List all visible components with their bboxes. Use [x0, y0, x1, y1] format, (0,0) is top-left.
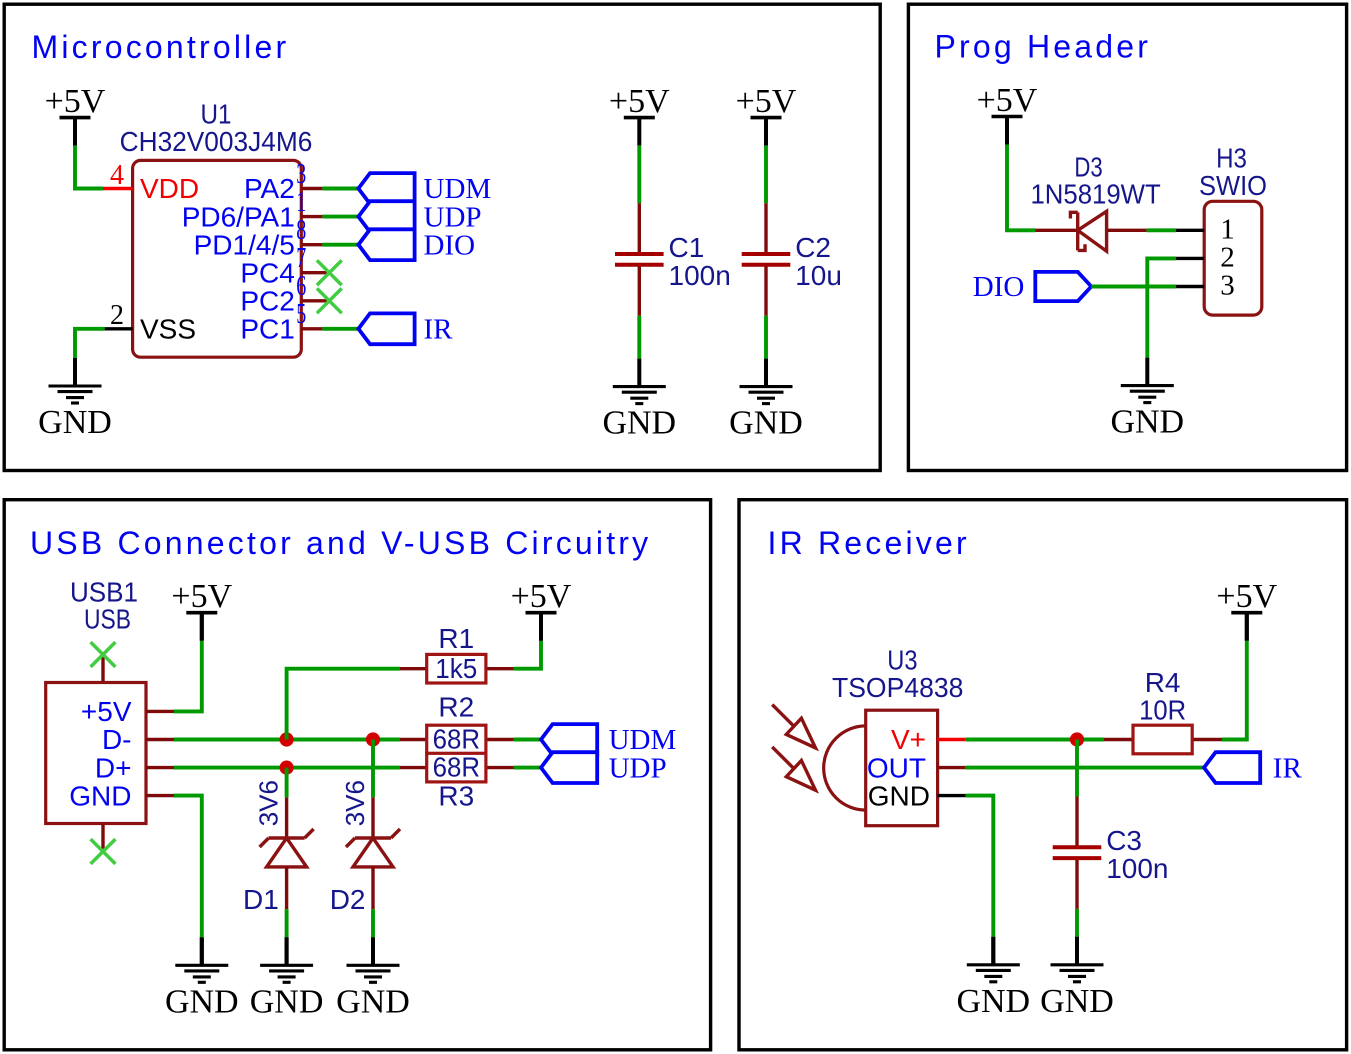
wire GND stick (black)	[285, 937, 289, 965]
label R1 reference	[438, 623, 474, 654]
resistor R4 10R	[1104, 725, 1222, 754]
svg-text:C2: C2	[795, 232, 831, 263]
svg-text:GND: GND	[1110, 404, 1184, 441]
no-connect X U1 PC4	[317, 260, 342, 285]
U1 pin 2 VSS	[105, 300, 196, 344]
title: USB Connector and V-USB Circuitry	[30, 525, 651, 561]
U1 pin 4 VDD	[103, 160, 199, 204]
wire R1 to D- branch	[287, 669, 400, 740]
wire C2 to GND	[764, 316, 768, 359]
H3 pin 2	[1176, 241, 1235, 273]
global label IR	[358, 313, 453, 345]
wire +5V stick (black)	[200, 613, 204, 641]
svg-text:TSOP4838: TSOP4838	[832, 672, 963, 703]
svg-text:GND: GND	[38, 404, 112, 441]
wire D3 anode to H3 pin 1	[1147, 228, 1176, 232]
svg-text:100n: 100n	[1106, 853, 1168, 884]
wire U1 PA2 to UDM	[322, 187, 358, 191]
svg-text:3: 3	[296, 159, 306, 190]
ground GND at C3	[1040, 937, 1114, 1020]
wire H3 pin 2 to GND	[1147, 258, 1176, 357]
svg-text:100n: 100n	[669, 260, 731, 291]
label C1 reference	[669, 232, 705, 263]
svg-text:GND: GND	[602, 405, 676, 442]
svg-text:+5V: +5V	[736, 83, 797, 120]
junction D- at D2 branch	[366, 732, 380, 746]
global label UDP	[358, 201, 481, 233]
title: Microcontroller	[32, 29, 290, 65]
U1 pin 8 PD1/4/5	[194, 215, 323, 260]
label R4 reference	[1145, 667, 1181, 698]
zener diode D1 3V6	[260, 797, 314, 909]
section frame: IR Receiver	[739, 500, 1347, 1050]
IC U1 CH32V003J4M6 body	[133, 160, 302, 357]
capacitor C3	[1053, 797, 1102, 909]
svg-text:DIO: DIO	[424, 229, 476, 261]
svg-text:7: 7	[296, 243, 306, 274]
USB1 shield pin top	[101, 655, 104, 683]
wire R2 to UDM label	[514, 738, 541, 742]
label U1 value CH32V003J4M6	[120, 126, 313, 157]
svg-text:OUT: OUT	[867, 752, 926, 783]
USB1 pin GND	[69, 780, 174, 811]
global label DIO	[358, 229, 475, 261]
svg-text:6: 6	[296, 271, 306, 302]
svg-text:+5V: +5V	[1216, 578, 1277, 615]
label U3 value TSOP4838	[832, 672, 963, 703]
power +5V at C1	[609, 83, 670, 146]
label D2 value 3V6 (rotated)	[340, 780, 370, 826]
svg-text:VSS: VSS	[140, 314, 196, 345]
svg-text:Microcontroller: Microcontroller	[32, 29, 290, 65]
label R1 value 1k5	[435, 653, 477, 684]
svg-text:C3: C3	[1106, 825, 1142, 856]
label C2 reference	[795, 232, 831, 263]
svg-text:D2: D2	[330, 884, 366, 915]
wire +5V to D3 cathode	[1007, 145, 1036, 231]
ground GND at U3	[956, 937, 1030, 1020]
svg-text:USB Connector and V-USB Circui: USB Connector and V-USB Circuitry	[30, 525, 651, 561]
svg-text:3V6: 3V6	[254, 780, 284, 826]
diode D3 1N5819WT schottky	[1036, 211, 1147, 251]
U1 pin 7 PC4	[240, 243, 329, 288]
label R2 value 68R	[433, 724, 480, 755]
power +5V at USB1	[171, 578, 232, 641]
svg-text:GND: GND	[165, 983, 239, 1020]
U3 pin OUT	[867, 752, 966, 783]
label D3 value 1N5819WT	[1030, 178, 1160, 209]
label USB1 value USB	[84, 603, 131, 634]
USB1 pin D-	[102, 724, 174, 755]
section frame: Prog Header	[908, 4, 1346, 470]
IR receiver U3 body	[824, 710, 938, 826]
no-connect X USB1 shield top	[91, 642, 116, 667]
wire DIO to H3 pin 3	[1091, 285, 1176, 289]
svg-text:U3: U3	[887, 645, 917, 676]
no-connect X USB1 shield bottom	[91, 839, 116, 864]
connector USB1 body	[46, 683, 146, 824]
power +5V at U1 VDD	[45, 83, 106, 146]
power +5V at C2	[736, 83, 797, 146]
svg-text:+5V: +5V	[511, 578, 572, 615]
U1 pin 6 PC2	[240, 271, 329, 316]
svg-text:3: 3	[1220, 270, 1235, 302]
svg-text:GND: GND	[956, 983, 1030, 1020]
wire R4 to +5V	[1222, 641, 1247, 740]
label H3 reference	[1216, 143, 1247, 174]
svg-text:10R: 10R	[1139, 695, 1186, 726]
svg-text:V+: V+	[891, 724, 926, 755]
global label UDP	[541, 752, 667, 784]
svg-text:IR: IR	[424, 314, 454, 346]
svg-text:1k5: 1k5	[435, 653, 477, 684]
wire D1 anode to GND	[285, 909, 289, 937]
capacitor C1	[615, 203, 664, 315]
wire +5V stick (black)	[1245, 613, 1249, 641]
svg-text:SWIO: SWIO	[1199, 170, 1267, 201]
svg-text:GND: GND	[729, 405, 803, 442]
ground GND at C2	[729, 359, 803, 442]
power +5V Prog Header	[977, 82, 1038, 145]
label R3 reference	[438, 781, 474, 812]
wire D2 cathode up	[371, 740, 375, 798]
wire C1 to GND	[637, 316, 641, 359]
U1 pin 1 PD6/PA1	[182, 187, 323, 232]
svg-text:C1: C1	[669, 232, 705, 263]
wire GND stick (black)	[371, 937, 375, 965]
svg-text:GND: GND	[250, 983, 324, 1020]
wire +5V to C1	[637, 146, 641, 204]
wire U1 PD6 to UDP	[322, 215, 358, 219]
capacitor C2	[742, 203, 791, 315]
wire D1 cathode up	[285, 768, 289, 798]
svg-text:1: 1	[296, 187, 306, 218]
svg-text:IR Receiver: IR Receiver	[768, 525, 970, 561]
svg-text:D1: D1	[243, 884, 279, 915]
svg-text:GND: GND	[69, 780, 131, 811]
svg-text:+5V: +5V	[977, 82, 1038, 119]
wire U1 PC1 to IR	[322, 327, 358, 331]
wire C3 to GND	[1075, 909, 1079, 937]
section frame: USB Connector	[4, 500, 710, 1050]
svg-text:H3: H3	[1216, 143, 1247, 174]
wire +5V to U1 VDD	[75, 146, 103, 189]
label C2 value 10u	[795, 260, 842, 291]
global label UDM	[541, 724, 676, 756]
wire U1 PD1 to DIO	[322, 243, 358, 247]
ground GND at C1	[602, 359, 676, 442]
label R4 value 10R	[1139, 695, 1186, 726]
global label UDM	[358, 173, 491, 205]
header H3 SWIO body	[1204, 201, 1262, 315]
wire R3 to UDP label	[514, 766, 541, 770]
label D3 reference	[1074, 151, 1102, 182]
wire +5V to C2	[764, 146, 768, 204]
label USB1 reference	[70, 576, 138, 607]
svg-text:USB: USB	[84, 603, 131, 634]
wire U3 OUT to IR label	[966, 766, 1204, 770]
wire C3 branch down	[1075, 740, 1079, 797]
svg-text:PC1: PC1	[240, 314, 294, 345]
resistor R3 68R	[400, 753, 514, 782]
power +5V at R4	[1216, 578, 1277, 641]
label D2 reference	[330, 884, 366, 915]
ground GND at D2	[336, 937, 410, 1020]
label R2 reference	[438, 692, 474, 723]
ground GND Prog Header	[1110, 358, 1184, 441]
svg-text:U1: U1	[201, 98, 232, 129]
label C1 value 100n	[669, 260, 731, 291]
U1 pin 5 PC1	[240, 299, 322, 344]
svg-text:VDD: VDD	[140, 173, 199, 204]
title: IR Receiver	[768, 525, 970, 561]
svg-text:Prog Header: Prog Header	[935, 29, 1152, 65]
no-connect X U1 PC2	[317, 288, 342, 313]
power +5V at R1	[511, 578, 572, 641]
label U1 reference	[201, 98, 232, 129]
wire U3 GND to GND	[966, 796, 994, 937]
U3 IR light arrow 1	[772, 705, 815, 748]
svg-text:D+: D+	[95, 752, 132, 783]
junction V+ node at C3	[1070, 732, 1084, 746]
zener diode D2 3V6	[346, 797, 400, 909]
H3 pin 1	[1176, 213, 1235, 245]
svg-text:IR: IR	[1273, 752, 1303, 784]
wire GND stick (black)	[1075, 937, 1079, 965]
svg-text:68R: 68R	[433, 752, 480, 783]
svg-text:2: 2	[110, 300, 124, 331]
wire net D- from USB1 to R2	[174, 738, 400, 742]
wire GND stick (black)	[991, 937, 995, 965]
ground GND at USB1	[165, 937, 239, 1020]
svg-text:PD1/4/5: PD1/4/5	[194, 229, 295, 260]
label C3 value 100n	[1106, 853, 1168, 884]
section frame: Microcontroller	[4, 4, 880, 470]
svg-text:+5V: +5V	[45, 83, 106, 120]
svg-text:UDP: UDP	[609, 752, 667, 784]
junction D+ at D1 branch	[280, 761, 294, 775]
global label DIO	[973, 271, 1092, 303]
USB1 shield pin bottom	[101, 824, 104, 852]
svg-text:8: 8	[296, 215, 306, 246]
title: Prog Header	[935, 29, 1152, 65]
svg-text:DIO: DIO	[973, 271, 1025, 303]
wire D2 anode to GND	[371, 909, 375, 937]
svg-text:+5V: +5V	[609, 83, 670, 120]
svg-text:10u: 10u	[795, 260, 842, 291]
label D1 reference	[243, 884, 279, 915]
ground GND at U1 VSS	[38, 358, 112, 441]
resistor R1 1k5	[400, 654, 514, 683]
svg-text:R3: R3	[438, 781, 474, 812]
wire +5V stick (black)	[539, 613, 543, 641]
svg-text:PC4: PC4	[240, 257, 294, 288]
ground GND at D1	[250, 937, 324, 1020]
svg-text:GND: GND	[336, 983, 410, 1020]
wire net D+ from USB1 to R3	[174, 766, 400, 770]
U3 IR light arrow 2	[772, 747, 815, 790]
svg-text:5: 5	[296, 299, 306, 330]
junction D- at R1 branch	[280, 732, 294, 746]
svg-text:+5V: +5V	[81, 696, 132, 727]
svg-text:R1: R1	[438, 623, 474, 654]
wire U3 V+ to R4	[966, 738, 1104, 742]
label C3 reference	[1106, 825, 1142, 856]
svg-text:R4: R4	[1145, 667, 1181, 698]
USB1 pin D+	[95, 752, 174, 783]
svg-text:PD6/PA1: PD6/PA1	[182, 201, 295, 232]
label U3 reference	[887, 645, 917, 676]
svg-text:4: 4	[110, 160, 124, 191]
U3 pin V+	[891, 724, 966, 755]
svg-text:CH32V003J4M6: CH32V003J4M6	[120, 126, 313, 157]
wire U1 VSS to GND	[75, 329, 105, 358]
U1 pin 3 PA2	[244, 159, 322, 204]
label R3 value 68R	[433, 752, 480, 783]
svg-text:R2: R2	[438, 692, 474, 723]
svg-text:GND: GND	[868, 780, 930, 811]
svg-text:3V6: 3V6	[340, 780, 370, 826]
global label IR	[1204, 752, 1302, 784]
svg-text:PA2: PA2	[244, 173, 295, 204]
svg-text:68R: 68R	[433, 724, 480, 755]
wire USB1 GND pin to GND	[174, 796, 202, 938]
wire GND stick (black)	[200, 937, 204, 965]
svg-text:GND: GND	[1040, 983, 1114, 1020]
H3 pin 3	[1176, 270, 1235, 302]
USB1 pin +5V	[81, 696, 174, 727]
svg-text:+5V: +5V	[171, 578, 232, 615]
svg-text:1N5819WT: 1N5819WT	[1030, 178, 1160, 209]
wire R1 to +5V	[514, 641, 541, 669]
svg-text:PC2: PC2	[240, 286, 294, 317]
wire USB1 +5V pin to +5V	[174, 641, 202, 712]
resistor R2 68R	[400, 725, 514, 754]
label D1 value 3V6 (rotated)	[254, 780, 284, 826]
U3 pin GND	[868, 780, 966, 811]
svg-text:D-: D-	[102, 724, 132, 755]
label H3 value SWIO	[1199, 170, 1267, 201]
